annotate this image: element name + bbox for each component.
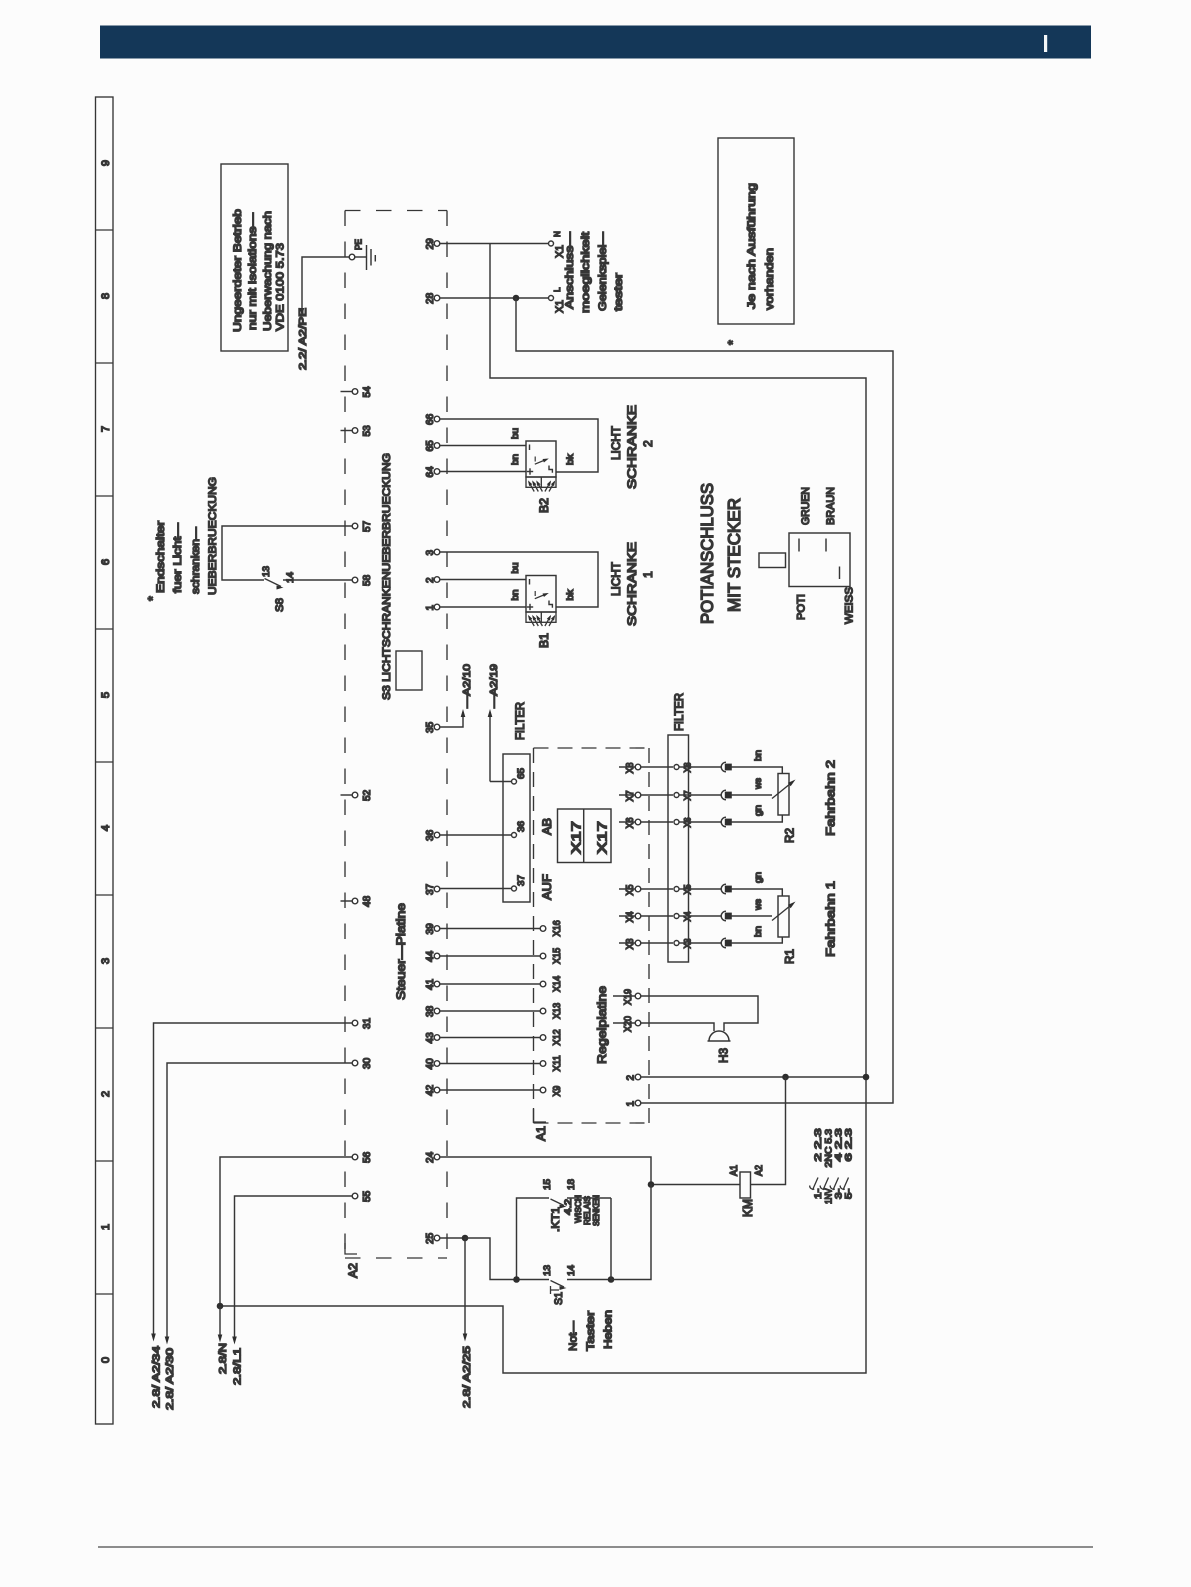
svg-text:X6: X6	[625, 817, 636, 828]
svg-text:Heben: Heben	[603, 1310, 615, 1349]
svg-text:3: 3	[100, 958, 112, 964]
plug-socket connector in ws wire (y=795)	[689, 790, 732, 800]
pin X19 (A1)	[613, 989, 641, 1005]
S3 box	[396, 651, 422, 690]
svg-text:58: 58	[362, 575, 373, 586]
controller board A2 dashed enclosure	[345, 211, 447, 1259]
svg-text:2.2/ A2/PE: 2.2/ A2/PE	[298, 308, 309, 370]
svg-text:2 2.3: 2 2.3	[813, 1128, 824, 1161]
svg-text:6 2.3: 6 2.3	[844, 1128, 855, 1161]
terminal 54 (A2)	[341, 386, 374, 397]
terminal 43 (A2)	[425, 1032, 440, 1043]
svg-text:bu: bu	[510, 428, 521, 439]
wire terminal 24 to KM coil A1	[440, 1157, 740, 1185]
svg-text:LICHT: LICHT	[609, 561, 623, 596]
terminal 29 (A2)	[425, 238, 440, 249]
svg-text:N: N	[553, 231, 562, 237]
note: Endschalter fuer Licht-schranken-UEBERBRUECKUNG	[146, 477, 219, 601]
wire KT1 18 rail down	[610, 1198, 612, 1280]
light barrier B1	[510, 563, 576, 649]
svg-text:R2: R2	[784, 828, 797, 843]
limit switch S8 contact 13-14	[261, 566, 296, 612]
KM contact mirror table	[810, 1128, 855, 1204]
junction N off-page branch	[217, 1303, 224, 1310]
wire terminal 41 to pin X14	[440, 983, 540, 985]
wire pin X4 to filter	[641, 915, 673, 917]
svg-text:X16: X16	[552, 920, 563, 937]
svg-text:gn: gn	[753, 805, 764, 816]
wire X3 to R1 bottom	[731, 937, 783, 943]
pin X6 (A1)	[619, 817, 641, 828]
svg-text:ws: ws	[753, 899, 764, 911]
junction at KM branch	[648, 1181, 655, 1188]
connector X17 (two halves)	[558, 809, 612, 863]
terminal 35 (A2)	[425, 722, 440, 733]
terminal 65 (A2)	[425, 440, 440, 451]
wire X7 to R2 wiper	[731, 794, 773, 796]
svg-text:moeglichkeit: moeglichkeit	[580, 231, 592, 313]
pin X5 (A1)	[619, 884, 641, 895]
svg-text:vorhanden: vorhanden	[764, 248, 776, 310]
svg-text:schranken—: schranken—	[190, 526, 202, 594]
wire X5 to R1 top	[731, 889, 783, 896]
pin X13 (A1)	[540, 1002, 563, 1019]
svg-text:SCHRANKE: SCHRANKE	[625, 542, 639, 626]
svg-text:13: 13	[542, 1265, 553, 1276]
svg-text:B2: B2	[538, 498, 551, 513]
wire terminal 29 to socket X1.N with branch	[440, 243, 548, 245]
svg-text:AB: AB	[540, 818, 554, 835]
plug-socket connector in bn wire (y=943)	[689, 938, 732, 948]
terminal PE (A2)	[349, 239, 364, 260]
label LICHT SCHRANKE 2	[609, 405, 655, 489]
pin X11 (A1)	[540, 1055, 563, 1072]
svg-text:Not—: Not—	[568, 1320, 580, 1351]
wire pin X5 to filter	[641, 888, 673, 890]
svg-text:Ungeerdeter Betrieb: Ungeerdeter Betrieb	[232, 209, 244, 332]
wire terminal 39 to pin X16	[440, 928, 540, 930]
A1 designator	[534, 1109, 549, 1141]
svg-text:A2: A2	[754, 1165, 765, 1176]
terminal 48 (A2)	[341, 896, 374, 907]
svg-text:X14: X14	[552, 975, 563, 992]
svg-text:X4: X4	[625, 911, 636, 922]
terminal 39 (A2)	[425, 923, 440, 934]
wire X4 to R1 wiper	[731, 915, 773, 917]
wire terminal 37 to filter pin 37	[440, 888, 512, 890]
poti plug drawing	[759, 533, 850, 587]
pin X14 (A1)	[540, 975, 563, 992]
pin X16 (A1)	[540, 920, 563, 937]
potentiometer R1	[772, 896, 797, 964]
filter pin X4	[674, 912, 694, 922]
note box: Je nach Ausfuehrung vorhanden	[718, 138, 794, 324]
svg-text:2.8/N: 2.8/N	[218, 1343, 229, 1374]
svg-text:SCHRANKE: SCHRANKE	[625, 405, 639, 489]
note box: Ungeerdeter Betrieb nur mit Isolations-Ueberwachung nach VDE 0100 5.73	[221, 164, 288, 351]
svg-text:—A2/19: —A2/19	[489, 664, 500, 708]
svg-text:FILTER: FILTER	[673, 693, 686, 731]
wire terminal 36 to filter pin 36	[440, 834, 512, 836]
wire off-page 2.8/N	[218, 1306, 223, 1343]
wire terminal 57 to S8 contact 13	[222, 526, 352, 580]
emergency push button S1 13-14	[517, 1265, 612, 1305]
svg-text:X11: X11	[552, 1055, 563, 1072]
light barrier B2	[510, 428, 576, 513]
wire terminal 35 to off-page A2/10	[440, 709, 466, 727]
pin X20 (A1)	[613, 1016, 641, 1032]
svg-text:2.8/ A2/34: 2.8/ A2/34	[152, 1346, 163, 1408]
svg-text:36: 36	[516, 821, 527, 832]
wire X20 to H3	[641, 1023, 714, 1031]
plug-socket connector in gn wire (y=822)	[689, 817, 732, 827]
svg-text:Anschluss—: Anschluss—	[564, 231, 576, 309]
svg-text:A1: A1	[729, 1165, 740, 1176]
wire terminal 40 to pin X11	[440, 1063, 540, 1065]
wire terminal 3 to B1 bk	[440, 552, 598, 607]
ground symbol	[355, 245, 376, 270]
svg-text:5-: 5-	[844, 1189, 855, 1199]
junction KM coil branch	[782, 1074, 789, 1081]
terminal 1 (A2)	[425, 604, 440, 610]
svg-text:MIT STECKER: MIT STECKER	[725, 498, 744, 612]
svg-text:2.8/L1: 2.8/L1	[233, 1348, 244, 1385]
svg-text:S3 LICHTSCHRANKENUEBERBRUECKUN: S3 LICHTSCHRANKENUEBERBRUECKUNG	[381, 453, 393, 700]
wire off-page 2.8/A2/25	[463, 1238, 468, 1342]
svg-text:5: 5	[100, 692, 112, 698]
svg-text:30: 30	[362, 1058, 373, 1069]
svg-text:*: *	[726, 340, 740, 345]
svg-text:X19: X19	[623, 989, 634, 1005]
terminal 38 (A2)	[425, 1006, 440, 1017]
note: Anschluss-moeglichkeit Gelenkspiel-tester	[564, 231, 625, 313]
svg-text:Fahrbahn 2: Fahrbahn 2	[824, 760, 838, 836]
wire terminal 55 to off-page 2.8/L1	[232, 1196, 352, 1345]
svg-text:PE: PE	[354, 239, 365, 250]
svg-text:48: 48	[362, 896, 373, 907]
svg-text:SENKEN: SENKEN	[591, 1195, 601, 1226]
contactor coil KM	[729, 1165, 765, 1217]
filter pin 65	[512, 768, 528, 784]
terminal 2 (A1)	[626, 1074, 641, 1080]
svg-text:15: 15	[542, 1179, 553, 1190]
terminal 31 (A2)	[352, 1018, 373, 1029]
svg-text:A1: A1	[535, 1126, 548, 1141]
svg-text:X17: X17	[595, 821, 610, 854]
filter (Fahrbahn) box	[668, 735, 689, 962]
svg-text:X13: X13	[552, 1002, 563, 1019]
wire X6 to R2 bottom	[731, 815, 783, 822]
terminal 55 (A2)	[352, 1191, 373, 1202]
svg-text:AUF: AUF	[540, 874, 554, 900]
svg-text:Ueberwachung nach: Ueberwachung nach	[262, 211, 274, 331]
svg-text:GRUEN: GRUEN	[800, 487, 812, 525]
svg-text:53: 53	[362, 425, 373, 436]
svg-text:S1: S1	[553, 1292, 565, 1305]
svg-text:POTI: POTI	[796, 594, 808, 620]
time relay contact KT1 15-18	[517, 1179, 612, 1280]
node X1 N	[549, 231, 567, 258]
svg-text:18: 18	[566, 1179, 577, 1190]
filter pin 37	[512, 875, 528, 891]
svg-text:KM: KM	[741, 1199, 755, 1217]
pin X12 (A1)	[540, 1029, 563, 1045]
svg-text:R1: R1	[784, 949, 797, 964]
svg-text:Je nach Ausführung: Je nach Ausführung	[746, 183, 758, 309]
terminal 3 (A2)	[425, 549, 440, 555]
svg-text:X3: X3	[625, 938, 636, 949]
wire terminal 2 (A1) to N line	[641, 1076, 866, 1078]
svg-text:56: 56	[362, 1152, 373, 1163]
svg-text:2.8/ A2/25: 2.8/ A2/25	[462, 1346, 473, 1408]
svg-text:Endschalter: Endschalter	[155, 521, 167, 593]
filter pin X8	[674, 763, 694, 773]
wire pin X6 to filter	[641, 821, 673, 823]
terminal 30 (A2)	[352, 1058, 373, 1069]
svg-text:X12: X12	[552, 1029, 563, 1045]
svg-text:X20: X20	[623, 1016, 634, 1032]
wire terminal 1 to B1 bn	[440, 606, 526, 608]
svg-text:bk: bk	[565, 454, 576, 465]
wire pin X3 to filter	[641, 942, 673, 944]
svg-text:X9: X9	[552, 1085, 563, 1096]
svg-text:1-: 1-	[813, 1189, 824, 1199]
wire terminal 38 to pin X13	[440, 1010, 540, 1012]
svg-text:Taster: Taster	[585, 1311, 597, 1351]
A2 designator	[345, 1243, 360, 1278]
wire junction to contacts left rail	[465, 1238, 517, 1280]
svg-text:X5: X5	[625, 884, 636, 895]
wire branch L down to A1 terminal 1	[516, 298, 893, 1103]
junction left rail	[513, 1276, 520, 1283]
pin X9 (A1)	[540, 1085, 563, 1096]
svg-text:B1: B1	[538, 633, 551, 648]
svg-text:bn: bn	[510, 454, 521, 465]
terminal 1 (A1)	[626, 1100, 641, 1106]
svg-text:2.8/ A2/30: 2.8/ A2/30	[165, 1348, 176, 1410]
svg-text:9: 9	[100, 160, 112, 166]
buzzer H3	[708, 1031, 731, 1063]
terminal 2 (A2)	[425, 577, 440, 583]
wire S8 contact 14 to terminal 58	[283, 579, 352, 581]
svg-text:A2: A2	[347, 1263, 360, 1278]
svg-text:31: 31	[362, 1018, 373, 1029]
terminal 25 (A2)	[425, 1233, 440, 1244]
labels AUF / AB	[540, 818, 554, 900]
svg-text:4: 4	[100, 825, 112, 831]
junction N line	[863, 1074, 870, 1081]
svg-text:57: 57	[362, 521, 373, 532]
svg-text:0: 0	[100, 1357, 112, 1363]
svg-text:bn: bn	[753, 750, 764, 761]
pin X4 (A1)	[619, 911, 641, 922]
wire pin X8 to filter	[641, 766, 673, 768]
pin X15 (A1)	[540, 947, 563, 964]
terminal 24 (A2)	[425, 1152, 440, 1163]
svg-text:2: 2	[100, 1091, 112, 1097]
svg-text:X8: X8	[625, 762, 636, 773]
label POTIANSCHLUSS MIT STECKER	[698, 483, 744, 624]
svg-text:gn: gn	[753, 872, 764, 883]
note WISCH RELAIS SENKEN	[573, 1195, 601, 1226]
wire terminal 64 to B2 bn	[440, 471, 526, 473]
svg-text:UEBERBRUECKUNG: UEBERBRUECKUNG	[207, 477, 219, 595]
filter pin X5	[674, 885, 694, 895]
node X1 L	[549, 287, 567, 313]
pin X8 (A1)	[619, 762, 641, 773]
terminal 28 (A2)	[425, 293, 440, 304]
svg-text:POTIANSCHLUSS: POTIANSCHLUSS	[698, 483, 717, 624]
svg-text:14: 14	[566, 1265, 577, 1276]
svg-text:14: 14	[285, 572, 296, 583]
wire X19 to H3	[641, 996, 758, 1031]
svg-text:2: 2	[641, 440, 655, 447]
control board A1 (Regelplatine) dashed enclosure	[534, 748, 650, 1123]
svg-text:VDE 0100 5.73: VDE 0100 5.73	[275, 243, 287, 331]
ruler scale 0-9	[96, 97, 114, 1424]
svg-text:L: L	[553, 287, 562, 292]
svg-text:7: 7	[100, 426, 112, 432]
svg-text:65: 65	[516, 768, 527, 779]
svg-text:*: *	[146, 596, 160, 601]
wire terminal 56 to N node	[220, 1157, 352, 1306]
filter pin X7	[674, 791, 694, 801]
svg-text:52: 52	[362, 790, 373, 801]
wire terminal 44 to pin X15	[440, 955, 540, 957]
pin X7 (A1)	[619, 791, 641, 802]
terminal 52 (A2)	[341, 790, 374, 801]
plug-socket connector in gn wire (y=889)	[689, 884, 732, 894]
svg-text:1: 1	[641, 571, 655, 578]
terminal 56 (A2)	[352, 1152, 373, 1163]
filter (Steuer-Platine) box	[503, 754, 530, 902]
junction terminal 25 branch	[462, 1235, 469, 1242]
filter pin X3	[674, 939, 694, 949]
svg-text:Steuer—Platine: Steuer—Platine	[394, 903, 408, 1000]
wire X8 to R2 top	[731, 767, 783, 774]
terminal 64 (A2)	[425, 466, 440, 477]
svg-text:bn: bn	[753, 926, 764, 937]
wire terminal 43 to pin X12	[440, 1037, 540, 1039]
svg-text:—A2/10: —A2/10	[462, 664, 473, 708]
terminal 36 (A2)	[425, 830, 440, 841]
terminal 40 (A2)	[425, 1058, 440, 1069]
svg-text:tester: tester	[613, 273, 625, 311]
svg-text:Fahrbahn 1: Fahrbahn 1	[824, 881, 838, 957]
svg-text:55: 55	[362, 1191, 373, 1202]
terminal 44 (A2)	[425, 951, 440, 962]
pin X3 (A1)	[619, 938, 641, 949]
svg-text:1: 1	[626, 1101, 637, 1107]
svg-text:FILTER: FILTER	[514, 702, 527, 740]
svg-text:fuer Licht—: fuer Licht—	[172, 522, 184, 593]
wire KM coil A2 to terminal 2 (A1)	[751, 1077, 786, 1185]
wire terminal 25 to junction	[440, 1237, 465, 1239]
svg-text:bk: bk	[565, 589, 576, 600]
terminal 37 (A2)	[425, 884, 440, 895]
svg-text:LICHT: LICHT	[609, 425, 623, 460]
svg-text:WEISS: WEISS	[844, 587, 856, 624]
plug-socket connector in ws wire (y=916)	[689, 911, 732, 921]
filter pin X6	[674, 818, 694, 828]
terminal 53 (A2)	[341, 425, 374, 436]
wire off-page A2/19 to filter pin 65	[488, 709, 493, 782]
header bar	[100, 26, 1091, 59]
wire terminal 65 to B2 bu	[440, 445, 526, 447]
label S1 Not-Taster Heben	[568, 1310, 615, 1351]
svg-text:2: 2	[626, 1075, 637, 1081]
wire pin X7 to filter	[641, 794, 673, 796]
wire terminal 31 to off-page 2.8/A2/34	[151, 1023, 352, 1342]
bottom rule line	[98, 1546, 1093, 1548]
wire contacts to KM branch	[611, 1185, 651, 1280]
wire terminal 42 to pin X9	[440, 1089, 540, 1091]
svg-text:X17: X17	[569, 821, 584, 854]
terminal 41 (A2)	[425, 979, 440, 990]
svg-text:X7: X7	[625, 791, 636, 802]
svg-text:Regelplatine: Regelplatine	[595, 986, 609, 1064]
wire terminal 28 to socket X1.L	[440, 297, 548, 299]
terminal 42 (A2)	[425, 1085, 440, 1096]
svg-text:nur mit Isolations—: nur mit Isolations—	[247, 212, 259, 330]
terminal 58 (A2)	[352, 575, 373, 586]
svg-text:13: 13	[261, 566, 272, 577]
svg-text:bn: bn	[510, 590, 521, 601]
plug-socket connector in bn wire (y=767)	[689, 762, 732, 772]
wire terminal 30 to off-page 2.8/A2/30	[165, 1063, 353, 1345]
svg-text:6: 6	[100, 559, 112, 565]
svg-text:S8: S8	[274, 598, 286, 612]
svg-text:X15: X15	[552, 947, 563, 964]
svg-text:8: 8	[100, 293, 112, 299]
svg-text:H3: H3	[718, 1048, 731, 1063]
svg-text:Gelenkspiel—: Gelenkspiel—	[597, 231, 609, 311]
wire terminal 2 to B1 bu	[440, 579, 526, 581]
svg-text:54: 54	[362, 386, 373, 397]
wire 2.2/A2/PE to terminal PE	[300, 257, 349, 316]
wire branch N down-right loop	[220, 244, 866, 1374]
svg-text:ws: ws	[753, 778, 764, 790]
label LICHT SCHRANKE 1	[609, 542, 655, 626]
svg-text:.KT1: .KT1	[550, 1207, 562, 1232]
terminal 66 (A2)	[425, 414, 440, 425]
svg-text:bu: bu	[510, 563, 521, 574]
svg-text:37: 37	[516, 875, 527, 886]
potentiometer R2	[772, 774, 797, 844]
svg-text:1: 1	[100, 1224, 112, 1230]
wire terminal 66 to B2 bk	[440, 419, 598, 472]
junction on wire 28	[513, 295, 520, 302]
filter pin 36	[512, 821, 528, 838]
junction right rail	[608, 1276, 615, 1283]
svg-text:BRAUN: BRAUN	[825, 487, 837, 525]
terminal 57 (A2)	[352, 521, 373, 532]
